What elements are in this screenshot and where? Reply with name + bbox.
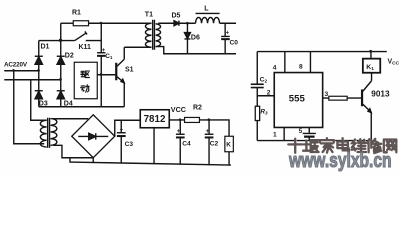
watermark char shi2 [289,140,303,154]
switch K11 blade [75,33,87,41]
wire: C2 drop [208,120,210,134]
svg-text:C1: C1 [105,53,113,60]
svg-text:D1: D1 [41,44,50,51]
node: K11/right column [59,39,62,42]
wire: R2 to K riser [199,120,229,136]
wire: right diode column D2/D4 [60,23,62,107]
svg-text:7812: 7812 [144,114,166,125]
wire: T1 primary bottom [124,46,151,48]
node: riser1/AC1 [12,69,15,72]
wire: AC line 2 [4,79,61,81]
watermark line 2 [289,150,392,173]
svg-text:VCC: VCC [388,58,400,66]
relay coil K1 box [363,59,380,73]
transformer T1 core [152,20,154,50]
node: C1/base wire [100,73,103,76]
svg-text:VCC: VCC [171,105,186,114]
capacitor C4 [176,134,185,137]
IC 555 box [274,73,322,128]
wire: left diode column D1/D3 [38,41,40,107]
wire: riser from AC line2 to transformer primary top [31,80,47,121]
wire: 7812 ground drop [153,128,155,164]
bridge inner diode [78,133,108,139]
wire: pin 4 riser [284,52,286,73]
small transformer T2 secondary coil [51,119,57,146]
svg-text:D4: D4 [64,101,73,108]
diode D4 [57,91,65,99]
svg-text:R3: R3 [260,108,268,115]
node: C4 top [179,118,182,121]
svg-text:L: L [204,6,209,13]
svg-text:K: K [226,142,231,149]
wire: pin 1 drop [283,127,285,140]
small transformer T2 primary coil [40,120,46,147]
svg-text:C3: C3 [125,141,134,148]
wire: L to output + [220,22,237,24]
small transformer T2 core [47,118,49,148]
regulator 7812 box [140,110,169,128]
node: C2 top [208,118,211,121]
capacitor C0 [221,23,230,54]
bridge rectifier diamond [72,115,115,158]
svg-text:3: 3 [325,91,329,98]
wire: T2 secondary bottom jog to bridge bottom vertex [53,145,93,157]
wire: drive box to S1 base [97,74,115,76]
wire: base resistor to 9013 [347,97,361,99]
capacitor C2 (low-voltage rail) [205,134,214,137]
transistor 9013 [362,73,372,141]
svg-text:D6: D6 [191,35,200,42]
relay contact K box [225,136,234,152]
svg-text:2: 2 [267,89,271,96]
svg-text:AC220V: AC220V [4,61,28,68]
wire: pin 3 to base resistor [323,97,329,99]
watermark char wang [385,140,398,153]
ground rail (555 circuit) [257,140,371,142]
watermark char jia [321,139,335,154]
wire: K1 to top rail [370,52,372,59]
555 circuit: top VCC wire [257,51,387,53]
svg-text:8: 8 [299,64,303,71]
resistor R3 [255,106,259,120]
svg-text:D3: D3 [39,101,48,108]
diode D3 [35,91,43,99]
svg-text:C2: C2 [260,77,268,85]
svg-text:5: 5 [299,128,303,135]
wire: K box bottom to rail [228,152,230,166]
label: drive box characters [81,71,90,77]
svg-text:K11: K11 [79,44,92,51]
svg-text:9013: 9013 [371,89,390,98]
wire: diamond right vertex riser [115,120,141,136]
svg-text:C2: C2 [210,140,219,147]
svg-text:R1: R1 [72,10,81,17]
svg-text:C0: C0 [230,40,239,47]
wire: 555 left column [256,52,258,85]
node: AC1/left column [37,69,40,72]
diode D2 [57,56,65,64]
svg-text:S1: S1 [125,67,134,74]
wire: top wire R1 row [61,22,74,24]
watermark char wei [352,140,367,153]
wire: AC line 1 [4,70,39,72]
svg-text:D5: D5 [172,13,181,20]
capacitor C3 [117,133,126,136]
transformer T1 secondary coil [156,24,161,47]
wire: C3 vertical [120,120,122,132]
watermark char dian [338,139,350,151]
wire: bridge bottom wire [39,106,125,108]
wire: C1 vertical [100,23,102,53]
wire: riser from AC line1 to transformer primary bottom [14,71,45,144]
diode D6 [184,23,190,54]
wire: T2 secondary top to bridge [53,118,88,120]
transistor S1 [116,47,124,107]
wire: pin 2 [257,95,274,97]
svg-text:1: 1 [273,132,277,139]
diode D5 [174,21,196,26]
wire: pin 5 drop + cap [308,127,310,133]
svg-text:+: + [177,129,181,135]
svg-text:555: 555 [289,94,306,105]
transformer T1 primary coil [145,23,151,47]
wire: C4 drop [179,120,181,134]
svg-text:+: + [206,129,210,135]
wire: T1 secondary top to D5 [158,22,174,24]
watermark char xiu [368,140,382,154]
inductor L [196,13,220,23]
svg-text:4: 4 [273,64,277,71]
wire: K11 right contact wire [86,40,102,42]
wire: pin 8 riser [309,52,311,73]
wire: K11 bottom wire [39,40,75,42]
node: C1 top [100,22,103,25]
resistor R2 [185,117,200,122]
svg-text:R2: R2 [193,105,202,112]
node: AC2/right column [59,78,62,81]
wire: diamond bottom vertex to ground rail [92,158,94,163]
svg-text:K1: K1 [366,64,374,72]
node: K1 riser [369,50,372,53]
wire: T1 secondary bottom jog [156,47,236,54]
diode D1 [35,56,43,64]
svg-text:D2: D2 [65,53,74,60]
capacitor C1 [97,52,105,54]
node: D5/D6/L junction [186,22,189,25]
svg-text:T1: T1 [145,12,153,19]
wire: 7812 output / VCC row [169,119,184,121]
svg-text:+: + [226,31,230,37]
ground rail (left circuit) [70,162,231,165]
resistor on pin 3 [329,96,347,100]
box: drive block [74,62,97,99]
capacitor C2 (555 timing) [251,84,264,87]
wire: rail elbow to bridge bottom line [69,158,71,163]
resistor R1 [73,21,88,26]
svg-text:C4: C4 [182,140,191,147]
svg-text:+: + [120,127,124,133]
watermark char yan [304,141,320,153]
